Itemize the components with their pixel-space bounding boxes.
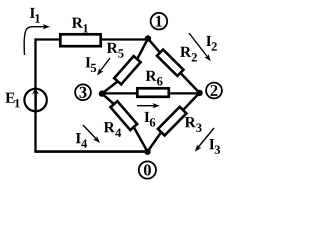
junction dot at node 3 — [99, 90, 105, 96]
label I3 — [209, 139, 214, 149]
current arrow I1 — [24, 27, 48, 55]
label R5 — [107, 43, 118, 53]
node 1 — [151, 13, 168, 30]
label I1 — [30, 8, 35, 18]
label R3 — [185, 117, 196, 127]
junction dot at node 2 — [196, 90, 202, 96]
junction dot at node 0 — [144, 149, 150, 155]
label I5 — [86, 57, 91, 67]
node 2 — [206, 83, 222, 99]
label R1 — [72, 18, 83, 28]
wire: diagonal node 0 to node 2 (through R3) — [148, 93, 200, 152]
resistor R2 — [157, 50, 184, 76]
wire: bottom horizontal to node 0 — [34, 150, 147, 153]
source E1 (circle with up arrow) — [24, 89, 46, 111]
resistor R5 — [114, 56, 140, 84]
wire: diagonal node 3 to node 0 (through R4) — [102, 94, 148, 152]
wire: diagonal node 3 to node 1 (through R5) — [102, 39, 148, 94]
resistor R6 — [137, 88, 169, 97]
label I4 — [76, 133, 81, 143]
current arrow I2 — [189, 33, 210, 60]
resistor R3 — [158, 107, 186, 136]
wire: middle horizontal node 3 to node 2 — [102, 92, 200, 94]
wire: diagonal node 1 to node 2 (through R2) — [148, 39, 200, 93]
resistor R1 — [60, 34, 100, 46]
label I6 — [144, 112, 149, 122]
wire: top horizontal, left corner to node 1 — [36, 38, 149, 40]
current arrow I4 — [83, 125, 99, 141]
label R4 — [104, 122, 115, 132]
label I2 — [206, 36, 211, 46]
current arrow I6 — [137, 105, 158, 107]
current arrow I3 — [196, 128, 214, 150]
node 3 — [75, 84, 91, 100]
wire: left vertical through source E1 — [34, 38, 36, 151]
node 0 — [139, 161, 156, 178]
junction dot at node 1 — [145, 35, 151, 41]
label R6 — [146, 71, 157, 81]
label R2 — [180, 47, 191, 57]
label E1 — [5, 93, 14, 103]
current arrow I5 — [98, 58, 110, 74]
resistor R4 — [110, 101, 137, 130]
